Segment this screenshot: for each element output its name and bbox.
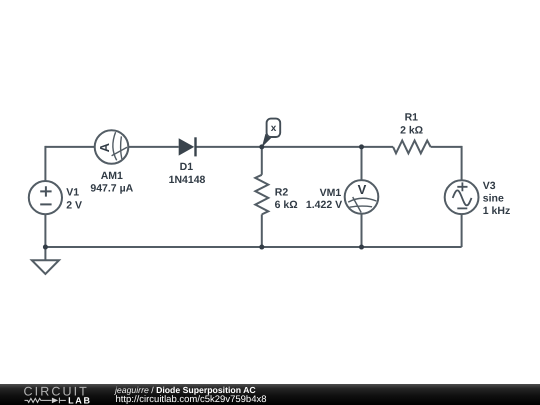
wire bottom horizontal <box>45 246 461 248</box>
svg-text:947.7 µA: 947.7 µA <box>90 182 133 194</box>
wire ground stem <box>44 247 46 260</box>
VM1 labels <box>306 187 342 211</box>
svg-text:R2: R2 <box>275 187 289 199</box>
svg-text:LAB: LAB <box>68 395 92 405</box>
junction node x <box>259 144 264 149</box>
svg-text:D1: D1 <box>180 161 194 173</box>
voltage source V3 <box>445 180 479 214</box>
footer bar <box>0 384 540 405</box>
junction ground <box>43 245 48 250</box>
svg-text:6 kΩ: 6 kΩ <box>275 199 298 211</box>
diode D1 <box>179 137 196 156</box>
wire R1 to right corner <box>431 146 462 148</box>
svg-text:V3: V3 <box>483 180 496 192</box>
ground <box>32 260 59 274</box>
D1 labels <box>169 161 206 186</box>
R1 labels <box>400 112 423 137</box>
wire V3 to bottom corner <box>461 214 463 247</box>
wire top-left horizontal <box>45 146 94 148</box>
wire VM1 bottom lead <box>361 214 363 247</box>
wire VM1 top lead <box>361 147 363 180</box>
wire ammeter to diode <box>128 146 178 148</box>
node x flag <box>267 119 281 137</box>
footer url line <box>116 394 267 405</box>
wire V1 bottom vertical <box>44 214 46 247</box>
svg-text:1.422 V: 1.422 V <box>306 199 342 211</box>
svg-text:V: V <box>358 182 367 197</box>
voltage source V1 <box>29 181 62 214</box>
svg-text:x: x <box>271 123 277 134</box>
junction VM1 bottom <box>359 245 364 250</box>
voltmeter VM1 <box>345 180 379 214</box>
wire diode to node x <box>196 146 262 148</box>
resistor R2 <box>255 175 268 215</box>
CircuitLab logo <box>0 384 100 405</box>
svg-text:VM1: VM1 <box>320 187 342 199</box>
svg-text:2 kΩ: 2 kΩ <box>400 124 423 136</box>
resistor R1 <box>393 141 431 154</box>
svg-text:A: A <box>97 142 112 152</box>
wire node x to R1 <box>262 146 393 148</box>
wire right vertical to V3 <box>461 146 463 181</box>
wire V1 top vertical <box>44 146 46 181</box>
svg-text:V1: V1 <box>66 187 79 199</box>
wire R2 bottom lead <box>261 214 263 247</box>
V3 labels <box>483 180 510 217</box>
svg-text:1 kHz: 1 kHz <box>483 205 510 217</box>
logo circuit glyph <box>25 398 66 404</box>
svg-text:1N4148: 1N4148 <box>169 174 206 186</box>
svg-text:R1: R1 <box>405 112 419 124</box>
wire R2 top lead <box>261 147 263 175</box>
svg-text:sine: sine <box>483 193 504 205</box>
footer title line <box>115 385 256 395</box>
ammeter AM1 <box>95 130 129 164</box>
R2 labels <box>275 187 298 212</box>
node x flag pointer <box>262 134 272 148</box>
junction VM1 top <box>359 144 364 149</box>
junction R2 bottom <box>259 245 264 250</box>
AM1 labels <box>90 170 133 195</box>
svg-text:2 V: 2 V <box>66 199 82 211</box>
svg-text:AM1: AM1 <box>101 170 123 182</box>
V1 labels <box>66 187 82 212</box>
